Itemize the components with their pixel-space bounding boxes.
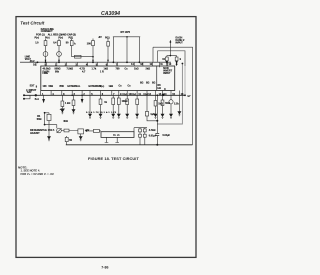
svg-text:1kΩ: 1kΩ (134, 68, 139, 71)
svg-text:EXTERNAL: EXTERNAL (67, 85, 80, 88)
svg-text:P(+): P(+) (45, 37, 50, 40)
svg-text:0.01µF: 0.01µF (149, 135, 157, 138)
svg-text:0.1 4 1.78 10.1 4.1 1.78: 0.1 4 1.78 10.1 4.1 1.78 (86, 111, 117, 114)
svg-text:LINE: LINE (43, 72, 49, 75)
svg-text:4.7kΩ: 4.7kΩ (149, 129, 156, 132)
svg-text:0.01µF: 0.01µF (163, 134, 171, 137)
svg-text:1 R: 1 R (100, 71, 104, 74)
svg-text:100: 100 (43, 85, 48, 88)
svg-text:1kΩ: 1kΩ (158, 103, 163, 106)
svg-text:50k: 50k (55, 71, 60, 74)
svg-text:7-86: 7-86 (101, 265, 108, 269)
svg-text:50Ω: 50Ω (49, 85, 54, 88)
svg-text:F(+): F(+) (123, 93, 128, 96)
svg-text:1 kΩ: 1 kΩ (65, 102, 70, 105)
svg-text:P(1): P(1) (105, 37, 110, 40)
svg-text:MT 1075: MT 1075 (121, 31, 131, 34)
svg-text:B.A: B.A (35, 98, 39, 101)
svg-text:Test Circuit: Test Circuit (20, 21, 45, 26)
svg-text:1.7k: 1.7k (92, 68, 97, 71)
svg-text:EXT: EXT (30, 85, 35, 88)
svg-text:FIGURE 18. TEST CIRCUIT: FIGURE 18. TEST CIRCUIT (88, 156, 139, 161)
svg-text:kΩ: kΩ (158, 87, 161, 90)
svg-text:50Ω: 50Ω (37, 118, 42, 121)
svg-text:P(+): P(+) (58, 37, 63, 40)
svg-text:1. SEE NOTE 4.: 1. SEE NOTE 4. (21, 169, 41, 173)
svg-text:ADJUST: ADJUST (30, 132, 40, 135)
svg-text:40.2: 40.2 (30, 60, 35, 63)
svg-text:2kΩ: 2kΩ (146, 68, 151, 71)
svg-text:5Ω: 5Ω (140, 82, 143, 85)
svg-text:B50: B50 (60, 85, 65, 88)
svg-text:+0.2: +0.2 (60, 108, 65, 111)
svg-text:1µF: 1µF (150, 113, 155, 116)
svg-text:1kΩ: 1kΩ (109, 85, 114, 88)
svg-text:P(+): P(+) (35, 37, 40, 40)
svg-text:10kΩ: 10kΩ (122, 100, 128, 103)
svg-text:F(+): F(+) (132, 93, 137, 96)
svg-text:5Ω: 5Ω (146, 82, 149, 85)
svg-text:2.2k: 2.2k (174, 103, 179, 106)
svg-text:-6V: -6V (98, 36, 102, 39)
svg-text:750: 750 (116, 68, 121, 71)
svg-text:7.5kΩ: 7.5kΩ (67, 68, 74, 71)
svg-text:FOR V+ = 6V AND V- = -6V.: FOR V+ = 6V AND V- = -6V. (21, 172, 55, 176)
svg-text:RL 2k: RL 2k (113, 134, 120, 137)
svg-text:R(+): R(+) (100, 85, 105, 88)
svg-text:P(1): P(1) (69, 37, 74, 40)
svg-text:1kΩ: 1kΩ (104, 68, 109, 71)
svg-text:+6V: +6V (85, 129, 90, 132)
svg-text:INPUT: INPUT (176, 42, 184, 45)
svg-text:5Ω: 5Ω (152, 82, 155, 85)
svg-text:INPUT: INPUT (163, 72, 171, 75)
svg-text:40Ω: 40Ω (63, 120, 68, 123)
svg-text:100: 100 (87, 43, 92, 46)
svg-text:SAT: SAT (27, 91, 32, 94)
svg-text:50Ω: 50Ω (165, 102, 170, 105)
